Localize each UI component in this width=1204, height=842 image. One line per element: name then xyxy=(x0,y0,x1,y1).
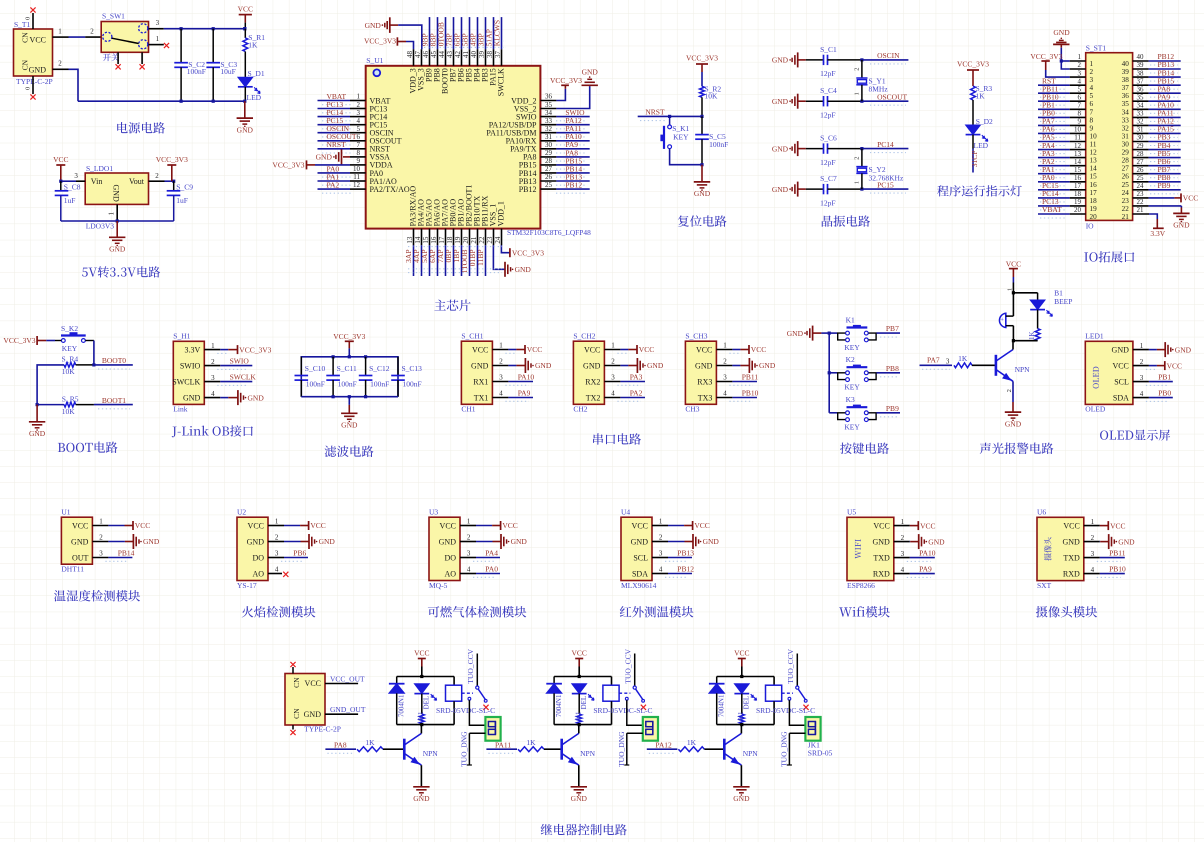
svg-text:25: 25 xyxy=(545,181,553,189)
svg-text:2: 2 xyxy=(1006,389,1013,392)
svg-text:S_C8: S_C8 xyxy=(64,182,81,191)
svg-text:S_C11: S_C11 xyxy=(337,364,357,373)
IC U5 ESP8266 body xyxy=(847,508,894,590)
svg-text:1: 1 xyxy=(99,518,103,526)
svg-text:S_D2: S_D2 xyxy=(976,117,993,126)
svg-text:PB6: PB6 xyxy=(293,549,306,558)
svg-text:47: 47 xyxy=(414,51,422,59)
pin 5 OSCIN left xyxy=(318,124,394,137)
svg-text:3: 3 xyxy=(1090,76,1094,84)
net label BOOT1 wire xyxy=(94,396,133,409)
svg-text:OSCOUT: OSCOUT xyxy=(877,93,907,102)
relay bottom rail xyxy=(397,723,454,726)
pin 4 TX3 of S_CH3 xyxy=(716,389,758,402)
svg-text:1: 1 xyxy=(499,342,503,350)
transistor NPN relay xyxy=(562,725,596,766)
svg-text:VCC: VCC xyxy=(694,521,709,530)
svg-text:0: 0 xyxy=(25,87,32,90)
svg-text:0: 0 xyxy=(25,17,32,20)
svg-text:1K: 1K xyxy=(365,738,375,747)
relay coil xyxy=(766,677,782,725)
pin 2 SWIO of S_H1 xyxy=(204,357,252,370)
svg-text:CN: CN xyxy=(21,32,30,43)
svg-text:GND: GND xyxy=(515,265,532,274)
svg-text:DEL: DEL xyxy=(742,696,750,710)
capacitor S_C6 12pF xyxy=(806,134,862,167)
svg-text:7: 7 xyxy=(1078,102,1082,110)
svg-text:K2: K2 xyxy=(846,355,855,364)
svg-text:6: 6 xyxy=(1090,100,1094,108)
pin 13 PA3/RX/AO bottom xyxy=(404,186,417,276)
svg-text:2: 2 xyxy=(211,358,215,366)
title 温湿度检测模块 xyxy=(54,590,140,602)
net label PA12 wire and resistor 1K xyxy=(647,738,725,754)
svg-text:1: 1 xyxy=(1140,342,1144,350)
svg-text:36: 36 xyxy=(545,93,553,101)
wire IO pin40 PB12 xyxy=(1133,52,1181,65)
svg-text:VCC: VCC xyxy=(734,648,749,657)
svg-text:3: 3 xyxy=(74,172,78,180)
svg-text:3: 3 xyxy=(659,550,663,558)
connector S_T1 TYPE-C-2P xyxy=(14,20,53,86)
svg-text:1K: 1K xyxy=(958,354,968,363)
pin 25 PB12 right xyxy=(519,181,590,194)
title 程序运行指示灯 xyxy=(937,185,1022,196)
wire Vout pin2 xyxy=(149,172,176,183)
title 火焰检测模块 xyxy=(242,606,316,618)
svg-text:1: 1 xyxy=(58,28,62,36)
svg-text:VCC: VCC xyxy=(1006,259,1021,268)
svg-text:SXT: SXT xyxy=(1037,581,1052,590)
svg-text:31: 31 xyxy=(1137,126,1145,134)
svg-text:1K: 1K xyxy=(687,738,697,747)
pin 40 PB4 top xyxy=(468,17,481,82)
svg-text:GND: GND xyxy=(316,153,333,162)
svg-text:2: 2 xyxy=(1091,534,1095,542)
crystal S_Y2 32.768KHz xyxy=(853,149,904,190)
power flag VCC_3V3 indicator xyxy=(957,60,989,87)
pin 43 PB7 top xyxy=(444,17,457,82)
svg-text:3: 3 xyxy=(211,374,215,382)
svg-text:1uF: 1uF xyxy=(64,196,76,205)
LED S_D2 xyxy=(966,117,993,150)
pin 20 PB2/BOOT1 bottom xyxy=(460,185,473,276)
push button S_K1 KEY xyxy=(660,116,702,164)
pin 29 PA8 right xyxy=(523,148,590,161)
svg-text:SWIO: SWIO xyxy=(230,357,250,366)
svg-text:27: 27 xyxy=(545,165,553,173)
wire IO pin31 PA15 xyxy=(1133,125,1181,138)
wire IO pin30 PB3 xyxy=(1133,133,1181,146)
svg-text:S_U1: S_U1 xyxy=(366,56,383,65)
svg-text:S_SW1: S_SW1 xyxy=(102,12,125,21)
wire IO pin9 PA7 xyxy=(1038,117,1086,130)
svg-text:VCC_3V3: VCC_3V3 xyxy=(1030,52,1062,61)
svg-text:GND: GND xyxy=(29,429,46,438)
relay LED FD xyxy=(734,684,756,714)
svg-text:37: 37 xyxy=(1122,84,1130,92)
pin 2 PC13 left xyxy=(318,100,388,113)
svg-text:VCC: VCC xyxy=(584,345,600,354)
svg-text:15: 15 xyxy=(422,236,430,244)
no-connect X relay typec bottom xyxy=(290,725,295,735)
pin 1 VCC of S_CH2 xyxy=(604,342,654,355)
dotted marks chip top xyxy=(424,41,506,47)
svg-text:S_D1: S_D1 xyxy=(248,69,265,78)
junction dots top rail xyxy=(180,27,215,30)
svg-text:VCC: VCC xyxy=(751,345,766,354)
wire contact to terminal xyxy=(469,700,485,725)
ground GND for S_C6 xyxy=(772,141,806,156)
svg-text:S_C12: S_C12 xyxy=(369,364,390,373)
IC S_CH2 body xyxy=(573,332,604,414)
svg-text:3: 3 xyxy=(1140,374,1144,382)
title 摄像头模块 xyxy=(1036,606,1097,617)
label 开关 xyxy=(103,53,119,61)
svg-text:TX3: TX3 xyxy=(698,393,713,402)
svg-text:Link: Link xyxy=(173,405,187,414)
svg-text:13: 13 xyxy=(406,236,414,244)
pin 45 PB8 top xyxy=(428,17,441,82)
title BOOT电路 xyxy=(58,442,118,453)
capacitor S_C3 10uF xyxy=(206,29,237,102)
svg-text:23: 23 xyxy=(1137,190,1145,198)
svg-text:17: 17 xyxy=(438,236,446,244)
svg-text:31: 31 xyxy=(1122,132,1130,140)
svg-text:VCC: VCC xyxy=(502,521,517,530)
svg-text:17: 17 xyxy=(1090,189,1098,197)
svg-text:GND: GND xyxy=(772,185,789,194)
svg-text:1K: 1K xyxy=(526,738,536,747)
svg-text:3: 3 xyxy=(611,374,615,382)
svg-text:16: 16 xyxy=(1090,181,1098,189)
switch S_SW1 xyxy=(101,12,148,53)
switch bottom pin stubs with X xyxy=(116,52,145,69)
svg-text:39: 39 xyxy=(1137,61,1145,69)
svg-text:VCC: VCC xyxy=(238,5,253,14)
svg-text:2: 2 xyxy=(659,534,663,542)
resistor S_R4 10K boot0 xyxy=(37,354,94,404)
svg-text:K1: K1 xyxy=(575,711,583,720)
IC U2 YS-17 body xyxy=(237,508,268,590)
pin 16 PA6/AO bottom xyxy=(428,199,441,276)
relay top rail xyxy=(397,675,454,678)
svg-text:SRD-05: SRD-05 xyxy=(808,749,833,758)
svg-text:PB13: PB13 xyxy=(677,549,694,558)
svg-text:38: 38 xyxy=(486,51,494,59)
no-connect X on relay contact xyxy=(641,705,646,710)
svg-text:VCC_OUT: VCC_OUT xyxy=(330,674,365,683)
svg-text:VCC_3V3: VCC_3V3 xyxy=(364,37,396,46)
svg-text:NPN: NPN xyxy=(423,749,439,758)
svg-text:PA2: PA2 xyxy=(630,389,643,398)
wire IO pin29 PB4 xyxy=(1133,141,1181,154)
svg-text:VCC: VCC xyxy=(305,679,321,688)
push button K1 KEY xyxy=(829,316,876,353)
svg-text:GND: GND xyxy=(247,537,265,546)
GND_OUT wire xyxy=(780,731,806,767)
svg-text:39: 39 xyxy=(478,51,486,59)
svg-text:S_C13: S_C13 xyxy=(402,364,423,373)
svg-text:GND: GND xyxy=(1005,419,1022,428)
ground GND ldo xyxy=(109,221,126,254)
net label PC15 wire xyxy=(860,180,908,193)
wire contact to terminal xyxy=(627,700,643,725)
svg-text:VCC: VCC xyxy=(639,345,654,354)
svg-text:DEL: DEL xyxy=(422,696,430,710)
wire IO pin2 GND xyxy=(1061,61,1085,69)
svg-text:7: 7 xyxy=(1090,108,1094,116)
pin 44 BOOT0 top xyxy=(436,17,449,94)
svg-text:S_C10: S_C10 xyxy=(305,364,326,373)
svg-text:27: 27 xyxy=(1122,165,1130,173)
svg-text:YS-17: YS-17 xyxy=(237,581,257,590)
svg-text:12: 12 xyxy=(353,181,361,189)
svg-text:36: 36 xyxy=(1122,92,1130,100)
net label GND_OUT wire xyxy=(325,705,366,714)
svg-text:2: 2 xyxy=(1090,68,1094,76)
power flag VCC relay xyxy=(571,648,586,676)
svg-text:3: 3 xyxy=(275,550,279,558)
svg-text:40: 40 xyxy=(1137,53,1145,61)
pin 26 PB13 right xyxy=(519,172,590,185)
svg-text:1K: 1K xyxy=(1028,331,1036,340)
wire IO pin27 PB6 xyxy=(1133,157,1181,170)
pin 3 SCL of U4 xyxy=(652,549,694,562)
power flag VCC beeper xyxy=(1006,259,1021,282)
ground GND boot xyxy=(29,403,46,438)
svg-text:GND: GND xyxy=(703,537,720,546)
pin 11 PA1/AO left xyxy=(318,172,397,185)
svg-text:1K: 1K xyxy=(248,41,258,50)
svg-text:PB12: PB12 xyxy=(565,181,582,190)
capacitor S_C7 12pF xyxy=(806,174,862,207)
svg-text:20: 20 xyxy=(1074,206,1082,214)
pin 3 DO of U3 xyxy=(460,549,500,562)
svg-text:CN: CN xyxy=(292,708,301,719)
svg-text:15: 15 xyxy=(1090,173,1098,181)
svg-text:25: 25 xyxy=(1122,181,1130,189)
power flag VCC_3V3 to pin48 xyxy=(364,37,414,50)
svg-text:19: 19 xyxy=(1090,205,1098,213)
title 电源电路 xyxy=(117,122,165,133)
svg-text:34: 34 xyxy=(1137,102,1145,110)
svg-text:PA0: PA0 xyxy=(485,565,498,574)
svg-text:20: 20 xyxy=(462,236,470,244)
svg-text:GND: GND xyxy=(29,65,47,74)
svg-text:1: 1 xyxy=(723,342,727,350)
svg-text:34: 34 xyxy=(545,109,553,117)
svg-text:3: 3 xyxy=(1091,550,1095,558)
pin 33 PA12/USB/DP right xyxy=(489,116,590,129)
filter top rail xyxy=(301,355,398,397)
ground GND top of IO xyxy=(1053,28,1070,61)
svg-text:SRD-05VDC-SL-C: SRD-05VDC-SL-C xyxy=(436,706,495,715)
pin 35 VSS_2 right xyxy=(514,68,599,114)
diode 1N4007 xyxy=(389,677,406,725)
svg-text:PB9: PB9 xyxy=(1158,181,1171,190)
svg-text:33: 33 xyxy=(1137,110,1145,118)
terminal block green xyxy=(805,717,820,741)
svg-text:PB10: PB10 xyxy=(1109,565,1126,574)
svg-text:VCC: VCC xyxy=(135,521,150,530)
svg-text:CH1: CH1 xyxy=(461,405,475,414)
relay top rail xyxy=(717,675,774,678)
svg-text:2: 2 xyxy=(275,534,279,542)
IC S_H1 body xyxy=(172,332,204,414)
svg-text:VBAT: VBAT xyxy=(1042,205,1062,214)
LDO GND pin1 wire xyxy=(107,204,117,221)
wire IO pin6 PB10 xyxy=(1038,93,1086,106)
svg-text:1: 1 xyxy=(1090,60,1094,68)
svg-text:2: 2 xyxy=(1140,358,1144,366)
svg-text:1: 1 xyxy=(467,518,471,526)
svg-text:10: 10 xyxy=(353,165,361,173)
svg-text:SWCLK: SWCLK xyxy=(497,68,506,96)
svg-text:1: 1 xyxy=(275,518,279,526)
pin 46 PB9 top xyxy=(420,17,433,82)
wire IO pin38 PB14 xyxy=(1133,68,1181,81)
ground GND power circuit xyxy=(237,101,254,134)
svg-text:GND: GND xyxy=(112,185,121,203)
svg-text:LED: LED xyxy=(974,141,989,150)
pin 17 PA7/AO bottom xyxy=(436,199,449,276)
IC U6 SXT body xyxy=(1037,508,1084,590)
relay switch contact VCC_OUT xyxy=(462,648,487,702)
svg-text:IO: IO xyxy=(1086,221,1094,230)
svg-text:U2: U2 xyxy=(237,508,246,517)
svg-text:SWCLK: SWCLK xyxy=(230,373,257,382)
pin 1 VCC of U4 xyxy=(652,518,710,531)
svg-text:S_LDO1: S_LDO1 xyxy=(86,164,113,173)
pin 22 PB11/RX bottom xyxy=(476,195,489,276)
pin numbers inside S_ST1 xyxy=(1090,60,1130,221)
LED in beeper circuit xyxy=(1030,293,1052,329)
svg-text:1uF: 1uF xyxy=(176,196,188,205)
svg-text:1: 1 xyxy=(211,342,215,350)
title Wifi模块 xyxy=(839,606,890,617)
svg-text:PA11: PA11 xyxy=(495,740,511,749)
wire IO pin5 PB11 xyxy=(1038,84,1086,97)
svg-text:10uF: 10uF xyxy=(220,67,235,76)
svg-text:30: 30 xyxy=(1122,141,1130,149)
svg-text:38: 38 xyxy=(1122,76,1130,84)
svg-text:VCC: VCC xyxy=(1112,361,1128,370)
svg-text:TYPE-C-2P: TYPE-C-2P xyxy=(304,725,341,734)
ground GND buttons xyxy=(787,326,829,341)
wire IO pin33 PA11 xyxy=(1133,109,1181,122)
svg-text:GND: GND xyxy=(582,68,599,77)
svg-text:31CP: 31CP xyxy=(970,151,979,168)
switch pin1 stub with X xyxy=(149,35,170,48)
pin 14 PA4/AO bottom xyxy=(412,199,425,276)
svg-text:9: 9 xyxy=(1078,118,1082,126)
relay switch contact VCC_OUT xyxy=(782,648,807,702)
svg-text:VCC: VCC xyxy=(1063,521,1079,530)
pin 1 VCC of U5 xyxy=(894,518,936,531)
resistor S_R1 1K xyxy=(243,29,265,77)
svg-text:VCC: VCC xyxy=(248,521,264,530)
capacitor S_C12 100nF xyxy=(359,357,390,397)
svg-text:11: 11 xyxy=(353,173,360,181)
svg-text:S_CH1: S_CH1 xyxy=(461,332,483,341)
power flag VCC_3V3 IO pin3 xyxy=(1030,52,1085,78)
svg-text:VCC_3V3: VCC_3V3 xyxy=(239,345,271,354)
wire Vin pin3 xyxy=(59,172,85,183)
svg-text:PB11: PB11 xyxy=(742,373,759,382)
wire IO pin37 PB15 xyxy=(1133,76,1181,89)
svg-text:PB0: PB0 xyxy=(1158,389,1171,398)
svg-text:32: 32 xyxy=(545,125,553,133)
wire IO pin10 PA6 xyxy=(1038,125,1086,138)
power flag VCC xyxy=(238,5,253,29)
wire IO pin7 PB1 xyxy=(1038,101,1086,114)
svg-text:2: 2 xyxy=(467,534,471,542)
svg-text:OLED: OLED xyxy=(1085,405,1106,414)
relay emitter to GND xyxy=(733,765,750,803)
svg-text:TUO_DNG: TUO_DNG xyxy=(780,731,789,767)
svg-text:GND: GND xyxy=(1062,537,1080,546)
svg-text:MQ-5: MQ-5 xyxy=(429,581,448,590)
svg-text:10: 10 xyxy=(1074,126,1082,134)
pin 2 GND of U6 xyxy=(1084,534,1135,549)
svg-text:12: 12 xyxy=(1074,142,1082,150)
pin 1 VCC of U6 xyxy=(1084,518,1126,531)
svg-text:PC14: PC14 xyxy=(877,140,894,149)
pin 32 PA11/USB/DM right xyxy=(486,124,589,137)
svg-text:3.3V: 3.3V xyxy=(1150,229,1165,238)
svg-text:PB7: PB7 xyxy=(886,324,899,333)
resistor 1K beeper xyxy=(1028,329,1040,341)
svg-text:PA12: PA12 xyxy=(655,740,672,749)
connector S_ST1 IO header body xyxy=(1086,44,1133,231)
net label OSCOUT wire xyxy=(860,93,908,106)
svg-text:VCC: VCC xyxy=(696,345,712,354)
svg-text:18: 18 xyxy=(446,236,454,244)
pin 3 SWCLK of S_H1 xyxy=(204,373,256,386)
svg-text:S_CH2: S_CH2 xyxy=(573,332,595,341)
svg-text:KEY: KEY xyxy=(844,343,860,352)
svg-text:VCC_3V3: VCC_3V3 xyxy=(3,336,35,345)
pin 3 DO of U2 xyxy=(268,549,308,562)
net label OSCIN wire xyxy=(860,51,908,64)
push button K3 KEY xyxy=(829,395,876,432)
svg-text:2: 2 xyxy=(99,534,103,542)
svg-text:9: 9 xyxy=(357,157,361,165)
svg-text:KLCWS: KLCWS xyxy=(492,20,501,46)
svg-text:22: 22 xyxy=(1137,198,1145,206)
svg-text:BOOT1: BOOT1 xyxy=(102,396,126,405)
svg-text:42: 42 xyxy=(454,51,462,59)
ground GND reset xyxy=(694,165,711,198)
title 按键电路 xyxy=(840,442,889,454)
svg-text:KEY: KEY xyxy=(62,344,78,353)
wire IO pin21 3.3V flag xyxy=(1133,206,1166,238)
wire IO pin11 PA5 xyxy=(1038,133,1086,146)
svg-text:S_K2: S_K2 xyxy=(61,324,78,333)
svg-text:100nF: 100nF xyxy=(187,67,206,76)
svg-text:14: 14 xyxy=(1074,158,1082,166)
svg-text:GND: GND xyxy=(237,125,254,134)
wire IO pin8 PB0 xyxy=(1038,109,1086,122)
svg-text:VCC: VCC xyxy=(30,36,46,45)
svg-text:GND: GND xyxy=(143,537,160,546)
svg-text:3: 3 xyxy=(499,374,503,382)
wire IO pin19 PC13 xyxy=(1038,197,1086,210)
svg-text:PB14: PB14 xyxy=(118,549,135,558)
title 复位电路 xyxy=(678,215,727,226)
svg-text:NPN: NPN xyxy=(1015,365,1031,374)
